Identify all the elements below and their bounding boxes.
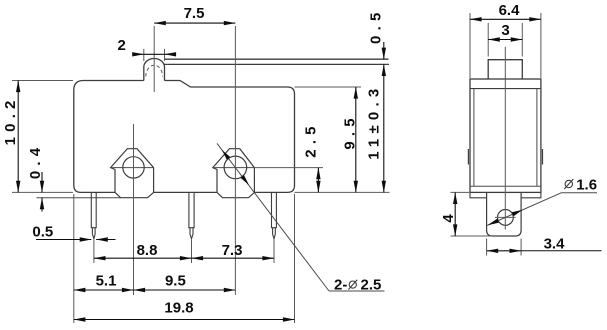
side body inner right seam <box>536 89 538 187</box>
terminal tab T1 (pentagon) <box>111 149 154 198</box>
side body inner left seam <box>473 89 475 187</box>
svg-text:3: 3 <box>501 22 509 39</box>
dimension 5.1 <box>74 289 134 291</box>
svg-text:2.5: 2.5 <box>303 121 320 157</box>
lever arm bottom line <box>165 63 390 65</box>
extension line body left edge down <box>73 194 75 323</box>
pin 2 (middle solder leg) <box>189 192 194 238</box>
svg-text:2-: 2- <box>334 277 347 294</box>
svg-text:2.5: 2.5 <box>361 277 382 294</box>
svg-text:10.2: 10.2 <box>2 95 19 145</box>
leader arrowhead at C2 upper edge <box>222 150 231 160</box>
leader arrowhead at C2 lower edge <box>241 175 250 185</box>
dimension 0.5 lever thickness <box>383 42 385 59</box>
label Ø1.6 <box>565 180 572 187</box>
side latch tab right <box>542 149 544 165</box>
svg-text:9.5: 9.5 <box>341 113 358 149</box>
svg-text:7.5: 7.5 <box>184 5 205 22</box>
svg-text:2: 2 <box>118 37 126 54</box>
extension line body bottom right <box>295 191 390 193</box>
dimension 10.2 <box>17 81 19 193</box>
dimension 2 <box>143 49 145 61</box>
leader arrowhead at hole upper edge <box>512 210 523 216</box>
side body top seam <box>470 88 541 90</box>
svg-text:19.8: 19.8 <box>164 299 193 316</box>
svg-text:0.5: 0.5 <box>367 7 384 43</box>
svg-text:0.5: 0.5 <box>32 224 53 241</box>
lever arm top line <box>164 58 388 60</box>
dimension 6.4 <box>470 18 541 20</box>
extension lines 4 <box>451 192 493 236</box>
terminal hole circle C2 <box>224 156 247 179</box>
terminal hole circle C1 <box>123 157 144 178</box>
centerline below pin 1 <box>93 239 95 263</box>
side plunger <box>488 60 522 79</box>
bracket hole circle <box>498 210 514 226</box>
terminal T1 chord line <box>111 167 154 169</box>
bottom foot lip under pin 1 <box>37 197 122 199</box>
dimension 3 <box>488 39 522 41</box>
svg-text:6.4: 6.4 <box>499 2 521 19</box>
leader line for 2-Ø2.5 <box>217 143 329 291</box>
centerline below pin 3 <box>273 239 275 263</box>
extension lines 3.4 <box>487 239 521 256</box>
side vertical centerline <box>504 47 506 230</box>
centerline of hole C2 extension right <box>254 167 323 169</box>
leader line for Ø1.6 <box>487 193 561 226</box>
extension line body top left <box>12 80 73 82</box>
extension lines 6.4 <box>470 13 541 78</box>
svg-text:11±0.3: 11±0.3 <box>365 84 382 160</box>
bracket hole horizontal centerline <box>495 216 516 218</box>
extension lines 3 <box>488 23 522 57</box>
dashed arc of pressed button <box>146 65 163 76</box>
leader arrowhead at hole lower edge <box>487 219 499 226</box>
side latch tab left <box>467 149 469 165</box>
extension line body bottom left <box>12 191 73 193</box>
terminal T2 chord line <box>213 167 255 169</box>
extension line body top right (stepped edge) <box>295 86 362 88</box>
dimension 7.5 <box>154 22 235 24</box>
dimension 7.3 <box>192 257 275 259</box>
dimension 8.8 <box>94 257 192 259</box>
dimension 9.5 bottom <box>134 289 236 291</box>
label underline Ø1.6 <box>562 192 598 194</box>
svg-text:1.6: 1.6 <box>576 176 597 193</box>
side body outline <box>470 79 541 192</box>
dimension 19.8 <box>74 319 295 321</box>
svg-text:0.4: 0.4 <box>27 143 44 179</box>
dimension 0.5 pin width <box>36 239 91 241</box>
side body bottom seam <box>470 185 541 187</box>
centerline of terminal T2 (also 7.5 extension) <box>234 26 236 295</box>
svg-text:7.3: 7.3 <box>222 242 243 259</box>
dimension 4 <box>454 192 456 236</box>
dimension 9.5 right <box>355 87 357 192</box>
pin 3 (right solder leg) <box>272 192 277 238</box>
mounting bracket <box>487 193 521 236</box>
svg-text:8.8: 8.8 <box>137 242 158 259</box>
svg-text:5.1: 5.1 <box>96 273 117 290</box>
svg-text:3.4: 3.4 <box>544 235 566 252</box>
label underline 2-Ø2.5 <box>329 290 385 292</box>
centerline below pin 2 <box>191 239 193 263</box>
side bottom lip left <box>470 192 487 197</box>
plunger button dome <box>144 59 165 81</box>
dimension 11±0.3 <box>383 64 385 192</box>
terminal tab T2 (pentagon) <box>213 149 255 198</box>
svg-text:4: 4 <box>440 214 457 223</box>
dimension 0.4 <box>41 172 43 192</box>
centerline of button <box>153 26 155 92</box>
dimension 3.4 <box>487 250 521 252</box>
dimension 2.5 <box>317 168 319 193</box>
centerline of terminal T1 <box>133 124 135 295</box>
svg-text:9.5: 9.5 <box>165 273 186 290</box>
side bottom lip right <box>521 192 541 197</box>
extension line body right edge down <box>294 194 296 323</box>
switch body outline (front view) <box>74 81 295 193</box>
pin 1 (left solder leg) <box>91 192 96 238</box>
